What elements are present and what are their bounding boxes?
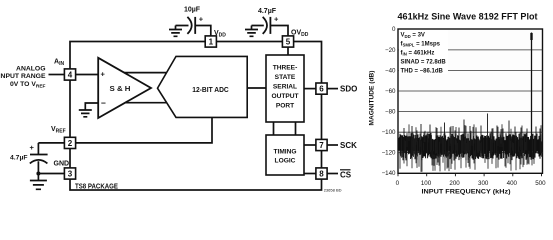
pin 8 CS (316, 168, 327, 179)
svg-text:VDD = 3V: VDD = 3V (401, 33, 425, 39)
svg-text:INPUT RANGE: INPUT RANGE (0, 73, 46, 80)
junction dot (C3/GND) (36, 172, 40, 176)
wire: ADC to serial port (247, 87, 266, 89)
svg-text:8: 8 (319, 169, 324, 178)
wire: pin 6 to SDO label (327, 88, 338, 90)
svg-text:0: 0 (396, 180, 400, 187)
pin 6 SDO (316, 83, 327, 94)
wire: timing logic to CS pin 8 (304, 173, 316, 175)
svg-text:1: 1 (209, 37, 214, 46)
svg-text:4.7µF: 4.7µF (10, 155, 28, 162)
svg-text:THD = −86.1dB: THD = −86.1dB (401, 68, 444, 74)
svg-text:ANALOG: ANALOG (16, 66, 45, 73)
svg-text:10µF: 10µF (184, 7, 201, 14)
svg-text:S & H: S & H (110, 86, 131, 93)
svg-text:500: 500 (535, 180, 546, 187)
svg-text:+: + (199, 15, 204, 24)
wire: pin 8 to CS label (327, 173, 338, 175)
svg-text:SINAD = 72.8dB: SINAD = 72.8dB (401, 59, 447, 65)
wire: timing logic to SCK pin 7 (304, 144, 316, 146)
pin 4 AIN (64, 69, 75, 80)
svg-text:STATE: STATE (275, 74, 296, 81)
svg-text:+: + (30, 143, 35, 152)
svg-text:300: 300 (478, 180, 489, 187)
svg-text:LOGIC: LOGIC (275, 158, 296, 165)
svg-text:fIN = 461kHz: fIN = 461kHz (401, 50, 435, 56)
svg-text:−60: −60 (385, 88, 396, 95)
svg-text:23658 BD: 23658 BD (324, 187, 342, 192)
svg-text:SCK: SCK (340, 141, 357, 150)
svg-text:−40: −40 (385, 67, 396, 74)
wire: VREF pin 2 to ADC bottom (38, 117, 212, 142)
svg-text:−: − (101, 98, 106, 108)
svg-text:2: 2 (68, 139, 73, 148)
svg-text:PORT: PORT (276, 103, 294, 110)
svg-text:7: 7 (319, 141, 324, 150)
capacitor C3 4.7uF (VREF bypass) (30, 143, 48, 174)
svg-text:MAGNITUDE (dB): MAGNITUDE (dB) (369, 71, 376, 126)
pin 1 VDD (205, 36, 216, 47)
wire: pin 7 to SCK label (327, 144, 338, 146)
svg-text:CS: CS (340, 170, 352, 179)
svg-text:200: 200 (449, 180, 460, 187)
svg-text:12-BIT ADC: 12-BIT ADC (192, 87, 229, 94)
wire: serial port to timing logic (bus, two lines) (274, 122, 296, 135)
svg-text:3: 3 (68, 169, 73, 178)
svg-text:−140: −140 (382, 170, 396, 177)
svg-text:OUTPUT: OUTPUT (271, 93, 298, 100)
block TIMING LOGIC (266, 135, 304, 175)
block 12-BIT ADC (158, 56, 248, 117)
wire: serial port to SDO pin 6 (304, 88, 316, 90)
svg-text:0: 0 (392, 26, 396, 33)
svg-text:SDO: SDO (340, 85, 357, 94)
chart gridlines (horizontal) (398, 50, 543, 153)
svg-text:INPUT FREQUENCY (kHz): INPUT FREQUENCY (kHz) (422, 188, 511, 195)
wire: pin 4 to S&H + input (76, 74, 100, 76)
ground (10uF cap) (175, 26, 177, 30)
wire: 4.7uF cap to OVDD pin 5 (252, 26, 289, 36)
ground (C3) (30, 181, 47, 190)
svg-text:−20: −20 (385, 47, 396, 54)
pin 3 GND (64, 168, 75, 179)
block THREE-STATE SERIAL OUTPUT PORT (266, 55, 304, 122)
pin 2 VREF (64, 137, 75, 148)
svg-text:TIMING: TIMING (273, 149, 296, 156)
svg-text:−120: −120 (382, 150, 396, 157)
svg-text:GND: GND (54, 161, 70, 168)
svg-text:4: 4 (68, 70, 73, 79)
svg-text:400: 400 (507, 180, 518, 187)
svg-text:100: 100 (421, 180, 432, 187)
wire: OVDD pin 5 into serial port (287, 47, 289, 55)
svg-text:−80: −80 (385, 109, 396, 116)
FFT fundamental spike 461kHz (531, 33, 533, 159)
wire: S&H output to ADC (upper) (120, 72, 172, 74)
wire: junction down to ground (37, 174, 39, 182)
svg-text:TS8 PACKAGE: TS8 PACKAGE (75, 184, 118, 191)
capacitor C1 10uF (187, 17, 191, 34)
wire: 10uF cap to VDD pin 1 (176, 26, 211, 36)
ground (4.7uF top cap) (251, 26, 253, 30)
svg-text:5: 5 (286, 37, 291, 46)
package outline TS8 (70, 42, 322, 191)
svg-text:THREE-: THREE- (273, 65, 298, 72)
capacitor C2 4.7uF (263, 17, 267, 34)
op-amp S & H (98, 58, 151, 118)
svg-text:+: + (101, 70, 106, 79)
svg-text:461kHz Sine Wave 8192 FFT Plot: 461kHz Sine Wave 8192 FFT Plot (398, 12, 539, 23)
annotation mask (399, 30, 448, 74)
svg-text:SERIAL: SERIAL (273, 84, 297, 91)
svg-text:−100: −100 (382, 129, 396, 136)
FFT noise floor (399, 133, 542, 161)
ground (S&H minus input) (79, 110, 92, 117)
chart x ticks (398, 173, 542, 176)
svg-text:6: 6 (319, 85, 324, 94)
wire: C3 junction to GND pin 3 (38, 173, 64, 175)
wire: analog input to pin 4 (49, 74, 65, 76)
wire: S&H minus input to ground (85, 103, 99, 110)
pin 7 SCK (316, 139, 327, 150)
chart plot frame (398, 29, 543, 173)
svg-text:+: + (274, 15, 279, 24)
wire: S&H output to ADC (lower) (122, 102, 172, 104)
svg-text:fSMPL = 1Msps: fSMPL = 1Msps (401, 42, 441, 48)
pin 5 OVDD (282, 36, 293, 47)
